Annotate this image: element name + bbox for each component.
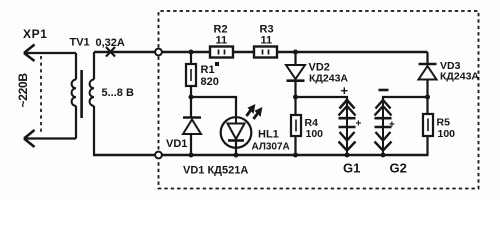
- dashed enclosure: [159, 11, 479, 189]
- label ~220В: [16, 73, 30, 108]
- plug XP1: [23, 27, 76, 147]
- junction node R1 top: [189, 50, 194, 55]
- junction node G2 rail: [381, 153, 386, 158]
- svg-text:VD1 КД521А: VD1 КД521А: [183, 165, 248, 177]
- LED HL1: [221, 106, 290, 155]
- wire R1 bottom to HL1 top: [191, 97, 236, 117]
- svg-text:АЛ307А: АЛ307А: [252, 142, 290, 153]
- LED arrows: [247, 109, 252, 116]
- svg-text:5...8 В: 5...8 В: [102, 87, 134, 99]
- wire bottom rail: [93, 154, 429, 156]
- resistor R2: [210, 24, 233, 58]
- primary winding: [75, 53, 77, 80]
- resistor R1: [186, 52, 219, 97]
- junction node G1 rail: [345, 153, 350, 158]
- svg-text:HL1: HL1: [258, 129, 279, 141]
- svg-text:~220В: ~220В: [16, 73, 30, 108]
- wire top rail: [94, 51, 428, 53]
- svg-text:11: 11: [216, 35, 228, 47]
- svg-text:VD1: VD1: [166, 138, 187, 150]
- core: [80, 70, 83, 118]
- svg-text:R5: R5: [437, 117, 451, 129]
- battery G2: [375, 90, 407, 176]
- resistor R5: [423, 114, 455, 155]
- svg-text:G2: G2: [390, 161, 407, 176]
- secondary winding: [93, 52, 95, 80]
- junction node VD2 bottom: [293, 95, 298, 100]
- fuse FU 0,32A: [96, 37, 125, 57]
- svg-text:0,32A: 0,32A: [96, 37, 125, 49]
- junction node R4 rail: [293, 153, 298, 158]
- terminal circle top: [155, 49, 162, 56]
- svg-text:КД243А: КД243А: [440, 71, 479, 83]
- svg-text:R1: R1: [201, 64, 215, 76]
- junction node VD3 bottom: [425, 95, 430, 100]
- svg-text:G1: G1: [343, 161, 360, 176]
- battery G1: [339, 83, 362, 176]
- resistor R3: [254, 24, 277, 58]
- svg-text:+: +: [389, 120, 395, 131]
- junction node VD1 rail: [189, 153, 194, 158]
- wire VD3 node to G2: [383, 97, 428, 101]
- terminal circle bottom: [155, 152, 162, 159]
- diode VD3: [419, 52, 480, 114]
- junction node R1 bottom: [189, 95, 194, 100]
- svg-text:+: +: [356, 119, 362, 130]
- diode VD1: [166, 97, 201, 155]
- svg-text:XP1: XP1: [23, 27, 47, 41]
- svg-text:11: 11: [261, 35, 273, 47]
- transformer TV1: [70, 37, 95, 156]
- svg-text:100: 100: [306, 128, 324, 140]
- wire VD2 node to G1: [296, 97, 348, 101]
- junction node HL1 rail: [234, 153, 239, 158]
- junction node VD2 top: [293, 50, 298, 55]
- svg-text:TV1: TV1: [70, 37, 90, 49]
- svg-text:100: 100: [438, 128, 456, 140]
- svg-text:+: +: [341, 83, 349, 98]
- svg-text:820: 820: [201, 76, 219, 88]
- diode VD2: [286, 52, 348, 115]
- resistor R4: [291, 115, 323, 155]
